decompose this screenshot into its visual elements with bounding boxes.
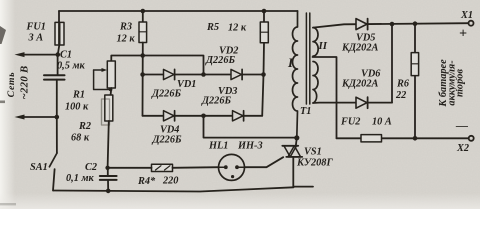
fuse FU1 bbox=[55, 22, 64, 45]
node VD2/R5 junction bbox=[261, 72, 266, 77]
svg-text:КУ208Г: КУ208Г bbox=[296, 158, 333, 169]
svg-text:R2: R2 bbox=[78, 121, 91, 132]
wire fuse to node A bbox=[58, 45, 60, 55]
diode VD5 bbox=[356, 19, 368, 30]
diode VD6 bbox=[356, 97, 368, 108]
wire R6 branch bbox=[414, 24, 416, 139]
diode VD3 bbox=[233, 111, 244, 121]
svg-text:—: — bbox=[455, 119, 468, 133]
svg-text:R4*: R4* bbox=[137, 176, 156, 187]
wire bottom mains rail bbox=[53, 187, 293, 191]
svg-text:ИН-3: ИН-3 bbox=[237, 141, 263, 152]
wire rectifier cathode join bbox=[391, 24, 393, 103]
svg-text:FU1: FU1 bbox=[26, 22, 46, 33]
svg-text:КД202А: КД202А bbox=[341, 79, 378, 90]
diode VD2 bbox=[231, 69, 242, 79]
wire R3 vertical bbox=[142, 43, 144, 116]
svg-text:0,5 мк: 0,5 мк bbox=[57, 61, 85, 72]
wire X2 output line bbox=[337, 137, 469, 139]
scan smudge left edge bbox=[0, 26, 16, 205]
svg-text:HL1: HL1 bbox=[208, 141, 228, 152]
terminal X2 bbox=[469, 136, 474, 141]
node R3/R1 line bbox=[140, 53, 145, 58]
node C junction (R4/C2) bbox=[105, 166, 109, 170]
resistor R2 bbox=[105, 95, 113, 121]
wire left column from rail to fuse bbox=[58, 11, 60, 22]
svg-text:С1: С1 bbox=[60, 50, 72, 61]
node C2 on bottom rail bbox=[106, 189, 111, 194]
svg-text:12 к: 12 к bbox=[228, 23, 247, 34]
transformer T1 secondary winding upper bbox=[313, 28, 318, 56]
node D junction (primary/triac/bridge) bbox=[294, 135, 299, 140]
capacitor C1 bbox=[44, 75, 65, 79]
wire bridge lower node to triac line bbox=[204, 116, 297, 138]
node B junction bbox=[55, 115, 60, 120]
transformer T1 secondary winding lower bbox=[313, 62, 318, 104]
wire node A to C1 bbox=[57, 55, 59, 75]
terminal X1 bbox=[469, 21, 474, 26]
svg-text:10 А: 10 А bbox=[372, 117, 392, 128]
svg-text:68 к: 68 к bbox=[71, 133, 90, 144]
resistor R5 bbox=[260, 22, 268, 43]
resistor R6 bbox=[411, 53, 418, 76]
node A junction bbox=[56, 52, 61, 57]
svg-text:Сеть: Сеть bbox=[6, 72, 17, 98]
wire triac cathode to bottom rail bbox=[293, 157, 313, 187]
neon lamp HL1 bbox=[219, 154, 245, 180]
svg-text:~220 В: ~220 В bbox=[19, 65, 31, 99]
transformer T1 core bbox=[306, 13, 309, 104]
svg-text:SA1: SA1 bbox=[30, 162, 48, 173]
svg-text:VS1: VS1 bbox=[304, 147, 322, 158]
svg-text:FU2: FU2 bbox=[340, 117, 360, 128]
wire secondary top to VD5 and X1 bbox=[313, 23, 469, 27]
wire lower diode line bbox=[143, 115, 263, 117]
switch SA1 bbox=[49, 153, 57, 167]
svg-text:Х1: Х1 bbox=[460, 10, 473, 21]
wire triac anode to node D bbox=[296, 138, 297, 146]
wire mains terminal arrow bottom bbox=[20, 116, 57, 118]
transformer T1 primary winding bbox=[293, 11, 298, 138]
node upper middle bbox=[201, 72, 206, 77]
svg-text:0,1 мк: 0,1 мк bbox=[66, 173, 94, 184]
svg-text:Д226Б: Д226Б bbox=[151, 89, 181, 100]
svg-text:Д226Б: Д226Б bbox=[205, 55, 235, 66]
wire secondary bottom to VD6 bbox=[313, 102, 392, 104]
wire upper diode line bbox=[143, 74, 264, 76]
wire R4 to lamp bbox=[173, 166, 219, 169]
wire top mains rail bbox=[59, 10, 298, 12]
svg-text:Т1: Т1 bbox=[300, 106, 311, 117]
svg-text:3 А: 3 А bbox=[28, 33, 44, 44]
svg-text:220: 220 bbox=[162, 176, 178, 187]
resistor R3 bbox=[139, 22, 147, 43]
svg-text:II: II bbox=[318, 40, 328, 52]
wire R1 bottom to R2 top bbox=[110, 88, 113, 95]
resistor R3 branch stub bbox=[142, 11, 144, 22]
wire node C to R4 bbox=[108, 167, 152, 169]
svg-text:торов: торов bbox=[455, 69, 466, 97]
wire C1 to node B bbox=[56, 80, 58, 117]
svg-text:Х2: Х2 bbox=[456, 143, 469, 154]
svg-text:22: 22 bbox=[395, 90, 406, 101]
svg-text:Д226Б: Д226Б bbox=[201, 96, 231, 107]
capacitor C2 bbox=[100, 168, 117, 191]
wire R2 bottom to node C bbox=[108, 121, 109, 168]
wire switch to bottom rail bbox=[53, 169, 55, 190]
diode VD4 bbox=[164, 111, 175, 121]
wire center tap to FU2 line bbox=[313, 57, 337, 138]
svg-text:R6: R6 bbox=[396, 79, 410, 90]
triac VS1 bbox=[282, 146, 302, 157]
diode VD1 bbox=[164, 69, 175, 79]
svg-text:I: I bbox=[287, 55, 294, 70]
svg-text:100 к: 100 к bbox=[65, 102, 89, 113]
fuse FU2 bbox=[361, 135, 382, 142]
wire R5 vertical bbox=[262, 11, 264, 116]
svg-text:12 к: 12 к bbox=[117, 34, 136, 45]
wire node B to switch bbox=[56, 117, 58, 153]
wire lamp to triac gate bbox=[245, 157, 284, 167]
wire R1 top line bbox=[111, 56, 203, 74]
svg-text:R5: R5 bbox=[206, 22, 219, 33]
svg-text:Д226Б: Д226Б bbox=[152, 135, 182, 146]
svg-text:С2: С2 bbox=[85, 162, 97, 173]
node lower middle bbox=[201, 114, 206, 119]
wire R1 wiper bbox=[94, 68, 113, 91]
resistor R4 bbox=[119, 164, 173, 171]
svg-text:R1: R1 bbox=[72, 90, 85, 101]
wire mains terminal arrow top bbox=[20, 54, 58, 56]
svg-text:+: + bbox=[459, 27, 467, 42]
resistor R1 (potentiometer) bbox=[107, 61, 115, 88]
svg-text:R3: R3 bbox=[119, 22, 132, 33]
svg-text:КД202А: КД202А bbox=[341, 43, 378, 54]
